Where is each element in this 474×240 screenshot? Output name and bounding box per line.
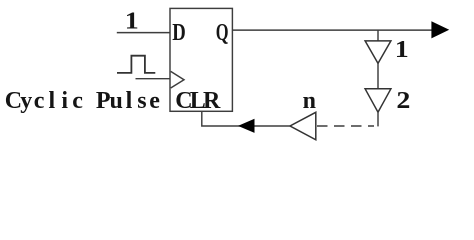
wire buffer1 to buffer2 — [377, 63, 379, 88]
svg-text:n: n — [303, 88, 316, 114]
wire drop to buffer chain — [377, 30, 379, 41]
arrowhead output (right) — [431, 21, 449, 38]
clock pulse waveform — [117, 56, 155, 73]
wire stub below buffer 2 — [377, 112, 379, 126]
D flip-flop U1 box — [170, 8, 232, 111]
buffer 2 (triangle down) — [365, 89, 391, 112]
dashed wire (omitted buffers) — [317, 125, 374, 127]
wire buffer n to CLR — [202, 111, 290, 126]
wire clock input — [136, 78, 171, 80]
clock edge-trigger triangle on box — [171, 71, 184, 88]
svg-text:Q: Q — [216, 20, 229, 46]
svg-text:Cyclic Pulse: Cyclic Pulse — [5, 88, 161, 114]
svg-text:D: D — [172, 20, 186, 46]
buffer n (triangle left) — [290, 112, 316, 140]
svg-text:CLR: CLR — [175, 88, 221, 114]
svg-text:2: 2 — [396, 88, 410, 114]
wire Q output — [232, 29, 437, 31]
svg-text:1: 1 — [395, 37, 409, 63]
buffer 1 (triangle down) — [365, 41, 391, 64]
wire D input — [117, 32, 170, 34]
arrowhead feedback (left) — [238, 119, 255, 133]
svg-text:1: 1 — [125, 9, 139, 35]
